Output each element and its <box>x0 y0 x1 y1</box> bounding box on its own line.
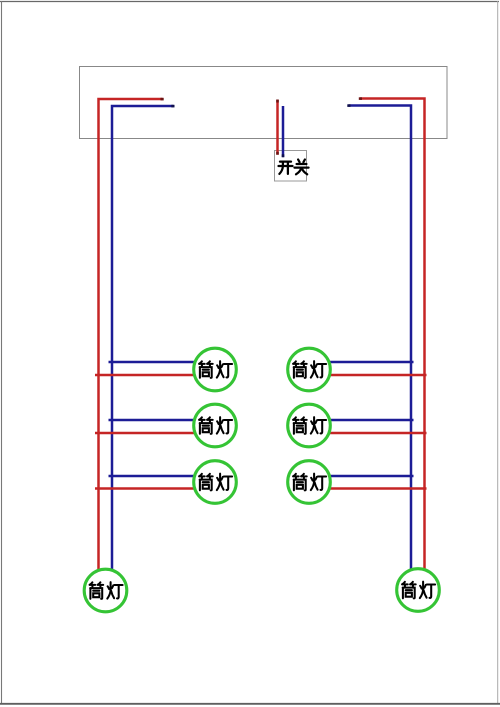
downlight L5 <box>288 404 331 447</box>
node red switch end <box>276 152 279 155</box>
wire blue tap right row 3 <box>328 475 414 478</box>
wire blue tap left row 1 <box>109 361 197 364</box>
wire blue switch drop <box>282 106 285 157</box>
downlight L1 <box>194 348 237 391</box>
downlight L3 <box>194 461 237 504</box>
wire red switch drop <box>276 100 279 155</box>
downlight L6 <box>288 461 331 504</box>
wire blue neutral right branch <box>349 106 412 570</box>
wire blue tap right row 1 <box>328 361 414 364</box>
wire red tap right row 3 <box>328 487 427 490</box>
downlight L2 <box>194 404 237 447</box>
downlight L8 <box>397 569 440 612</box>
wire red live right branch <box>360 99 425 570</box>
switch S1 box <box>275 151 307 182</box>
switch S1 label 开关 <box>279 160 309 175</box>
wire red tap left row 2 <box>95 432 196 435</box>
downlight L4 <box>288 348 331 391</box>
wire blue neutral left branch <box>112 106 174 570</box>
node red switch top <box>276 100 279 103</box>
wire red tap left row 3 <box>95 487 196 490</box>
wire red tap right row 2 <box>328 432 427 435</box>
wire red live left branch <box>99 99 163 570</box>
wire blue tap left row 3 <box>109 475 197 478</box>
ceiling junction box <box>80 67 448 139</box>
node blue end left <box>171 105 174 108</box>
node blue switch end <box>282 154 285 157</box>
node red end left <box>161 98 164 101</box>
node red end right <box>359 97 362 100</box>
wire blue tap right row 2 <box>328 419 414 422</box>
wire red tap right row 1 <box>328 374 427 377</box>
wire red tap left row 1 <box>95 374 196 377</box>
downlight L7 <box>84 569 127 612</box>
wire blue tap left row 2 <box>109 419 197 422</box>
node blue end right <box>347 104 350 107</box>
